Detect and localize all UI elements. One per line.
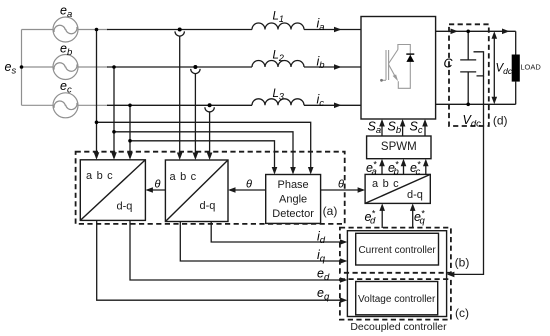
svg-text:Angle: Angle	[279, 194, 307, 206]
svg-text:C: C	[444, 57, 454, 71]
svg-text:(d): (d)	[493, 114, 508, 128]
svg-text:θ: θ	[155, 179, 161, 191]
svg-text:Voltage controller: Voltage controller	[358, 294, 436, 305]
svg-text:e*b: e*b	[388, 160, 399, 178]
svg-text:θ: θ	[246, 179, 252, 191]
svg-text:Detector: Detector	[272, 208, 314, 220]
svg-text:Decoupled controller: Decoupled controller	[350, 321, 447, 333]
svg-text:d-q: d-q	[200, 200, 216, 212]
svg-text:a b c: a b c	[86, 170, 113, 182]
svg-text:Phase: Phase	[277, 179, 308, 191]
svg-text:e*q: e*q	[414, 209, 425, 227]
svg-text:a b c: a b c	[372, 178, 399, 190]
svg-text:θ: θ	[338, 179, 344, 191]
svg-text:a b c: a b c	[170, 171, 197, 183]
svg-text:(c): (c)	[455, 306, 469, 320]
svg-text:(a): (a)	[323, 204, 338, 218]
svg-text:SPWM: SPWM	[381, 141, 417, 153]
svg-text:e*d: e*d	[365, 209, 376, 227]
svg-text:e*a: e*a	[366, 160, 377, 178]
svg-text:e*c: e*c	[410, 160, 421, 178]
svg-text:d-q: d-q	[117, 201, 133, 213]
svg-text:d-q: d-q	[407, 189, 423, 201]
svg-text:(b): (b)	[455, 256, 470, 270]
svg-text:Current controller: Current controller	[358, 245, 436, 256]
svg-text:LOAD: LOAD	[520, 63, 541, 72]
